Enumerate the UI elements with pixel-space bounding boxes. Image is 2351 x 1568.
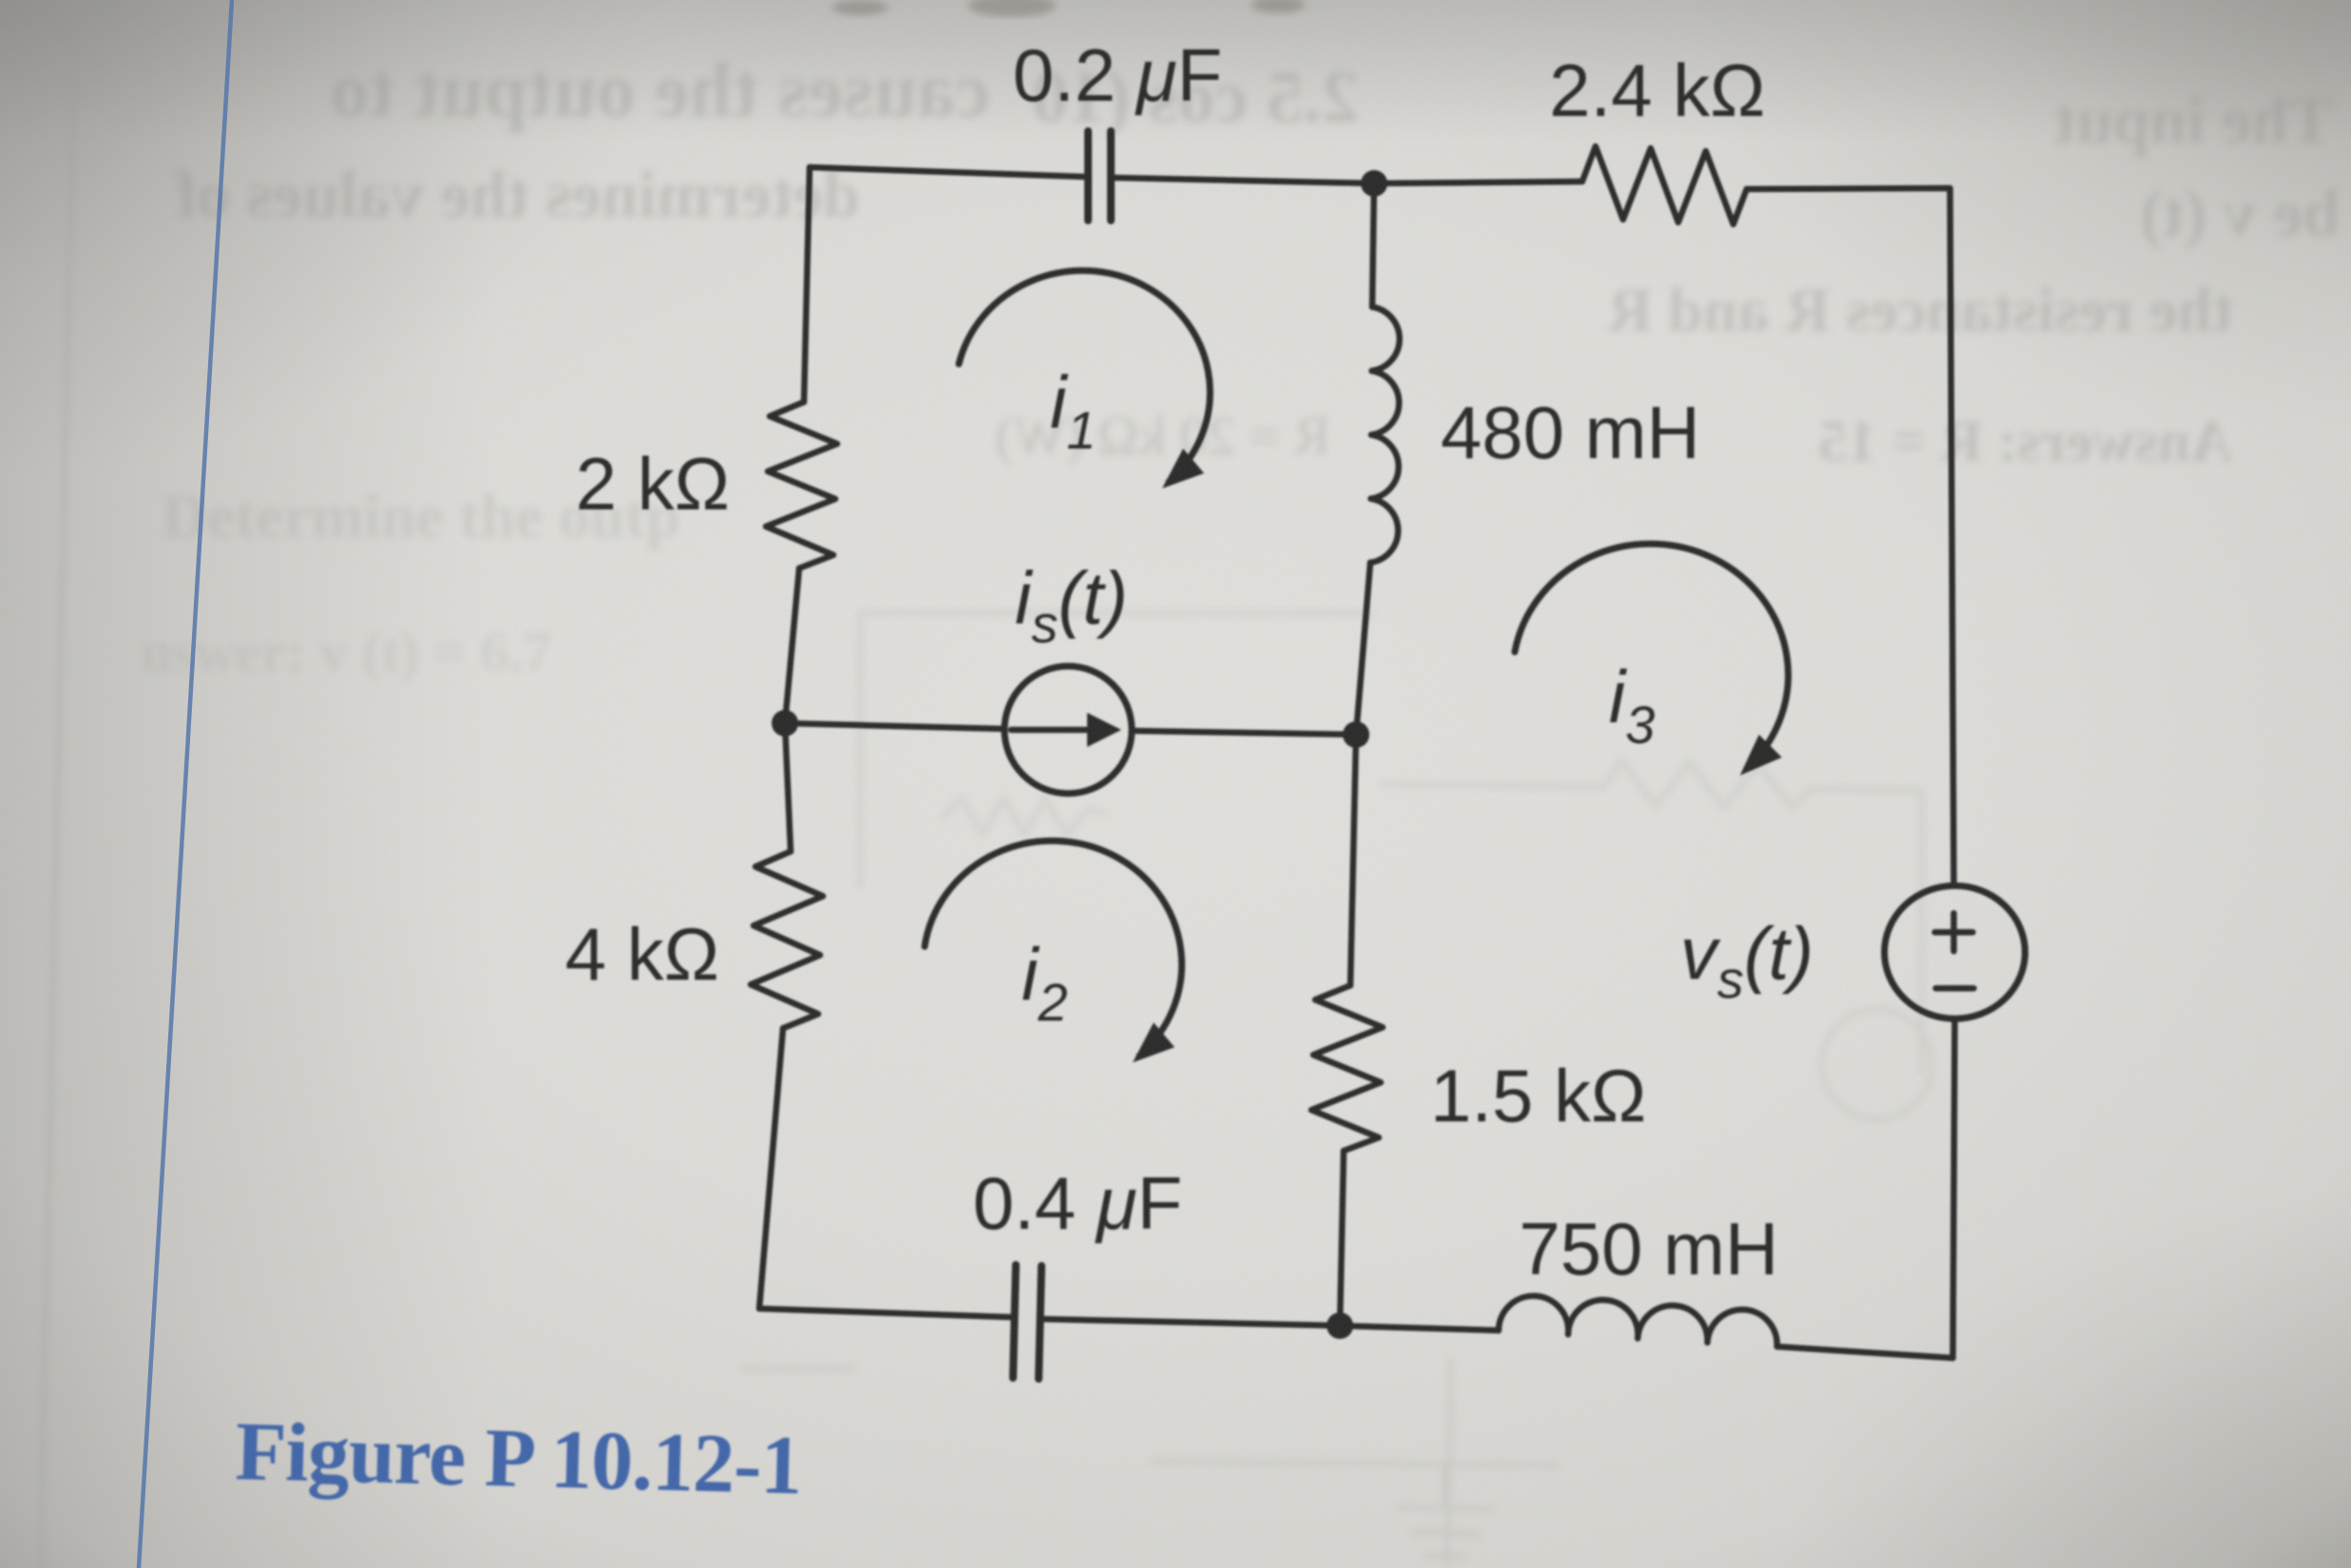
blue margin rule (decorative) [139, 0, 232, 1568]
wire left edge (node B to resistor 4k top lead) [785, 723, 791, 851]
current source is(t) circle [1004, 666, 1132, 794]
inductor 480 mH [1370, 307, 1400, 563]
wire top-left segment (top-left corner to capacitor C1 left plate) [810, 167, 1084, 177]
voltage source plus sign [1935, 913, 1973, 951]
resistor 2 kOhm [766, 402, 837, 568]
mesh current i1 loop arrow [959, 271, 1210, 482]
wire left edge (2k resistor to node B) [785, 568, 799, 723]
wire bottom segment (node D to capacitor C2 right plate) [1042, 1319, 1340, 1326]
node B junction dot (left end of source link) [772, 710, 798, 736]
current source arrow [1011, 727, 1091, 734]
wire inductor branch upper lead (node A to coil top) [1372, 183, 1374, 307]
node C junction dot (right end of source link) [1343, 721, 1369, 748]
wire top-right segment (resistor to top-right corner) and right edge down to source [1747, 188, 1954, 885]
wire bottom-left segment (C2 left plate to bottom-left corner) [759, 1309, 1010, 1317]
wire middle link right (current source to node C) [1132, 731, 1356, 735]
resistor 4 kOhm [751, 851, 823, 1028]
wire bottom-right segment (corner to inductor 750mH right lead) [1777, 1347, 1953, 1358]
wire middle branch (node C to resistor 1.5k top lead) [1350, 735, 1356, 985]
wire top node A to resistor R 2.4k left lead [1374, 182, 1582, 183]
wire middle link left (node B to current source) [785, 723, 1004, 729]
wire left edge bottom segment (4k resistor to bottom-left corner) [759, 1028, 783, 1309]
resistor 2.4 kOhm [1582, 146, 1747, 224]
wire right edge lower segment (source to bottom-right corner) [1953, 1019, 1955, 1358]
resistor 1.5 kOhm [1311, 985, 1383, 1151]
mesh current i3 loop arrow [1515, 544, 1788, 769]
capacitor C2 0.4uF plates [1013, 1265, 1042, 1379]
voltage source minus sign [1936, 985, 1974, 992]
voltage source vs(t) circle [1884, 886, 2025, 1019]
mesh current i2 loop arrow [925, 841, 1182, 1056]
wire bottom segment (inductor left lead to node D) [1340, 1326, 1499, 1330]
inductor 750 mH [1499, 1296, 1777, 1347]
node D junction dot (bottom of 1.5k branch) [1327, 1312, 1353, 1339]
wire top-middle segment (C1 right plate to node A) [1115, 178, 1374, 183]
node A junction dot (top of inductor branch) [1361, 170, 1387, 197]
wire middle branch lower lead (1.5k resistor to node D) [1340, 1151, 1344, 1326]
capacitor C1 0.2uF plates [1088, 131, 1111, 220]
wire inductor branch lower lead (coil bottom to node C) [1356, 563, 1370, 735]
wire left edge top segment (top-left corner to resistor 2k top lead) [804, 167, 810, 402]
